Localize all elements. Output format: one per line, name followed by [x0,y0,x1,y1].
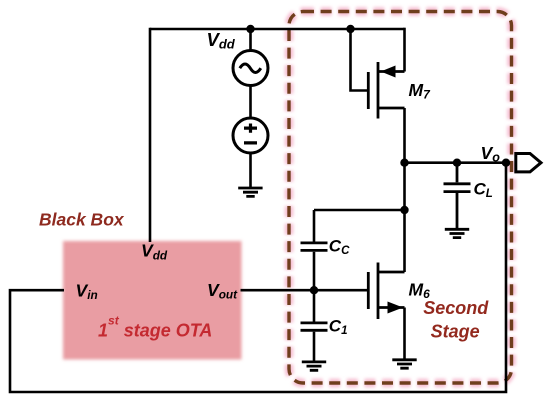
black box (1st stage OTA) [63,241,242,360]
svg-text:C1: C1 [329,316,348,337]
wire: feedback from Vo down, along bottom, to Vin [10,163,506,392]
ground (supply) [238,188,262,196]
node: compensation tap on drain column [400,206,408,214]
wire: C1 top lead [313,290,316,321]
wire: drain column to CC [314,209,405,212]
svg-text:Second: Second [423,298,489,318]
node: rail to AC source [246,25,254,33]
ground (CL) [445,229,469,237]
wire: M7 drain column down to M6 drain [403,108,406,272]
wire: CC top lead [313,210,316,242]
output port pointer [516,154,541,172]
wire: rail to AC source [249,29,252,51]
svg-text:Black Box: Black Box [39,209,125,229]
svg-text:M7: M7 [409,80,432,102]
second stage dashed boundary [289,12,512,384]
ground (M6) [392,360,416,368]
capacitor C1 [301,323,328,330]
M6 source arrow [388,302,404,314]
M7 source arrow [381,66,396,78]
svg-text:CC: CC [329,236,350,257]
wire: M6 source to ground [403,308,406,360]
wire: AC source to DC source [249,86,252,119]
svg-text:Vdd: Vdd [207,29,236,52]
wire: M7 gate bias [351,29,369,91]
wire: Vdd top rail [150,28,405,31]
capacitor CL [444,163,471,230]
wire: Vout from black box to M6 gate [241,289,369,292]
ground (C1) [302,362,326,370]
capacitor CC [301,243,328,251]
wire: CC bottom lead to Vout node [313,252,316,290]
wire: M7 source up to rail [403,28,406,72]
svg-text:CL: CL [474,179,493,200]
wire: Vdd rail down to black box [149,28,152,242]
transistor M6 (NMOS) [368,263,404,320]
DC source [233,118,268,153]
wire: C1 to ground [313,332,316,362]
node: feedback corner [502,159,510,167]
second stage dashed boundary glow [289,12,512,384]
wire: output to Vo port [405,161,507,164]
node: Vout / CC / C1 junction [310,286,318,294]
svg-text:Vo: Vo [481,143,501,165]
transistor M7 (PMOS) [368,62,404,119]
AC source Vdd [233,51,268,86]
node: rail to M7 gate [346,25,354,33]
svg-text:Stage: Stage [431,321,480,341]
node: CL tap [453,159,461,167]
node: output at drain [400,159,408,167]
wire: DC source to ground [249,153,252,188]
